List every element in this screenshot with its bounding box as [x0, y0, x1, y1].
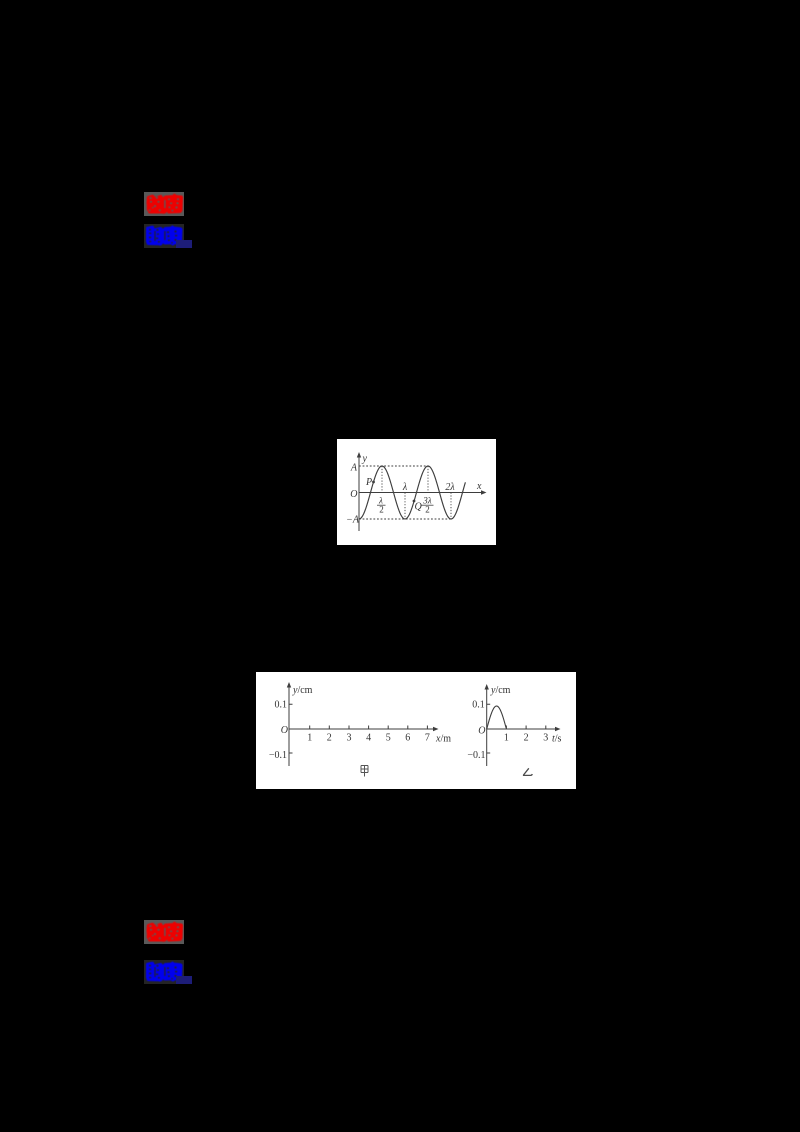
left x axis — [289, 728, 435, 730]
svg-text:2: 2 — [379, 505, 384, 515]
svg-text:1: 1 — [307, 733, 312, 744]
left x ticks — [310, 726, 428, 730]
svg-text:−0.1: −0.1 — [467, 750, 485, 761]
analysis badge 1 (blue) — [144, 224, 184, 248]
dashed -A line — [359, 518, 451, 520]
y axis — [358, 456, 360, 531]
svg-text:5: 5 — [386, 733, 391, 744]
svg-text:x: x — [476, 481, 482, 492]
svg-text:0.1: 0.1 — [472, 700, 485, 711]
svg-text:6: 6 — [405, 733, 410, 744]
yi glyph (figure label) — [523, 768, 532, 775]
x arrowhead — [481, 490, 487, 494]
svg-text:7: 7 — [425, 733, 430, 744]
x axis — [359, 492, 483, 494]
right y axis — [486, 688, 488, 766]
fraction bars — [377, 504, 386, 506]
svg-text:1: 1 — [504, 733, 509, 744]
svg-text:O: O — [281, 725, 288, 736]
svg-text:O: O — [350, 489, 357, 500]
svg-text:x/m: x/m — [435, 734, 451, 745]
svg-text:−0.1: −0.1 — [269, 750, 287, 761]
left y ticks — [289, 704, 293, 753]
svg-text:3: 3 — [347, 733, 352, 744]
pulse curve — [487, 706, 507, 729]
svg-text:4: 4 — [366, 733, 371, 744]
svg-text:y: y — [362, 454, 368, 465]
right x axis — [487, 728, 557, 730]
arrowheads — [287, 682, 291, 688]
right y ticks — [487, 704, 491, 753]
y arrowhead — [357, 452, 361, 458]
point P dot — [372, 481, 375, 484]
svg-text:2: 2 — [425, 505, 430, 515]
answer badge 1 (red) — [144, 192, 184, 216]
svg-text:O: O — [478, 726, 485, 737]
wave curve — [359, 466, 465, 519]
answer badge 2 (red) — [144, 920, 184, 944]
dotted verticals — [381, 466, 383, 493]
svg-text:−A: −A — [346, 515, 360, 526]
svg-text:3: 3 — [543, 733, 548, 744]
svg-text:2λ: 2λ — [445, 482, 455, 493]
svg-text:P: P — [365, 477, 372, 488]
figure 2: two plots jia / yi — [256, 672, 576, 789]
right x ticks — [506, 726, 545, 730]
svg-text:2: 2 — [524, 733, 529, 744]
navy highlight block 1 — [176, 240, 192, 248]
dashed A line — [359, 465, 428, 467]
point Q dot — [413, 500, 416, 503]
left y axis — [288, 686, 290, 766]
figure 1: wave y(x) graph — [337, 439, 496, 545]
svg-text:y/cm: y/cm — [490, 685, 511, 696]
navy highlight block 2 — [176, 976, 192, 984]
svg-text:t/s: t/s — [552, 734, 562, 745]
analysis badge 2 (blue) — [144, 960, 184, 985]
svg-text:A: A — [350, 463, 358, 474]
svg-text:λ: λ — [402, 482, 408, 493]
jia glyph (figure label) — [361, 766, 368, 777]
svg-text:Q: Q — [415, 502, 423, 513]
svg-text:2: 2 — [327, 733, 332, 744]
svg-text:y/cm: y/cm — [292, 685, 313, 696]
svg-text:0.1: 0.1 — [275, 700, 288, 711]
